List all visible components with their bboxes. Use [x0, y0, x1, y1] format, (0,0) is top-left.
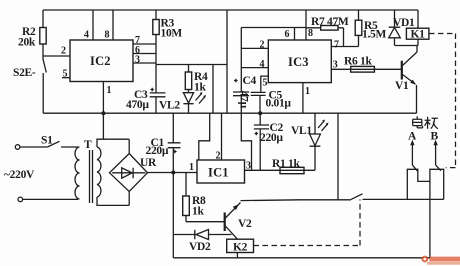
wire IC2 pin4: [92, 10, 94, 40]
wire vertical x227: [226, 10, 228, 113]
wire IC2 pin2: [43, 55, 70, 57]
wire C1 to bottom rail: [172, 173, 174, 258]
svg-text:S2E-: S2E-: [13, 67, 36, 79]
diode VD2: [173, 230, 231, 254]
relay coil K2: [227, 239, 254, 258]
terminal circle top: [15, 145, 20, 150]
LED VL2: [183, 92, 206, 113]
wire IC2 pin7: [133, 43, 156, 45]
svg-text:VL1: VL1: [291, 125, 312, 137]
wire IC3 pin7: [331, 46, 358, 48]
svg-text:220µ: 220µ: [146, 145, 169, 157]
svg-text:UR: UR: [140, 157, 157, 169]
svg-text:V1: V1: [395, 80, 409, 92]
svg-text:4: 4: [84, 30, 89, 41]
switch S1: [20, 135, 78, 148]
capacitor C3: [126, 88, 166, 113]
wire IC3 pin1: [302, 83, 304, 114]
wire bottom rail: [173, 257, 430, 259]
electrode arrow A: [411, 143, 413, 165]
connector sockets: [407, 169, 443, 199]
node junction mid rail: [258, 111, 262, 115]
label electrode: [413, 116, 438, 129]
svg-text:20k: 20k: [18, 37, 36, 49]
svg-text:VD2: VD2: [189, 241, 211, 253]
svg-text:B: B: [431, 131, 439, 143]
svg-text:2: 2: [260, 40, 265, 51]
diode VD1: [389, 10, 415, 46]
svg-text:R1 1k: R1 1k: [272, 158, 300, 170]
relay coil K1: [395, 10, 429, 46]
wire node to bridge: [102, 113, 104, 139]
capacitor C2: [254, 113, 284, 170]
LED VL1: [291, 113, 329, 170]
svg-text:VD1: VD1: [393, 17, 415, 29]
svg-text:IC1: IC1: [208, 166, 229, 180]
wire vertical x213: [212, 65, 214, 114]
timer IC1: [197, 160, 245, 183]
wire IC3 pin6: [294, 28, 296, 41]
bridge rectifier UR: [110, 139, 158, 191]
capacitor C5: [251, 90, 292, 114]
resistor R1: [272, 158, 304, 174]
electrode arrow B: [435, 143, 437, 165]
svg-text:IC3: IC3: [288, 55, 309, 69]
svg-text:2: 2: [61, 46, 66, 57]
wire x338 vertical: [337, 113, 339, 199]
svg-text:5: 5: [263, 78, 268, 89]
svg-text:10M: 10M: [161, 28, 183, 40]
svg-text:T: T: [84, 139, 92, 151]
svg-text:1k: 1k: [194, 82, 206, 94]
resistor R4: [185, 65, 208, 94]
wire IC3 pin2: [241, 47, 268, 49]
svg-text:4: 4: [260, 59, 265, 70]
resistor R2: [18, 10, 46, 56]
svg-text:1: 1: [107, 85, 112, 96]
transistor V2: [225, 203, 252, 240]
wire IC2 pin8: [112, 10, 114, 40]
svg-text:1: 1: [189, 162, 194, 173]
wire V2 base: [186, 221, 224, 223]
svg-text:V2: V2: [238, 218, 252, 230]
svg-text:7: 7: [334, 40, 339, 51]
wire IC1 pin3: [245, 169, 316, 171]
svg-text:S1: S1: [41, 135, 53, 147]
switch S2E: [13, 56, 46, 113]
wire IC1 pin2: [221, 113, 223, 160]
wire mid rail: [43, 112, 416, 114]
wire IC3 pin5: [261, 76, 269, 92]
svg-text:1.5M: 1.5M: [362, 29, 386, 41]
wire IC3 pin4: [241, 67, 268, 69]
wire top rail: [43, 9, 418, 11]
svg-text:IC2: IC2: [90, 54, 111, 68]
svg-text:3: 3: [246, 161, 251, 172]
resistor R7: [306, 16, 349, 47]
wire IC2 pin1: [102, 82, 104, 114]
svg-text:0.01µ: 0.01µ: [266, 98, 292, 110]
wire IC3 pin8: [305, 10, 307, 40]
svg-text:1k: 1k: [192, 206, 204, 218]
capacitor C1: [146, 113, 181, 172]
wire 220V bottom: [23, 198, 78, 200]
svg-text:470µ: 470µ: [126, 99, 149, 111]
svg-text:8: 8: [105, 30, 110, 41]
node junction C1: [171, 171, 175, 175]
svg-text:3: 3: [333, 60, 338, 71]
svg-text:47µ: 47µ: [238, 91, 250, 109]
wire electrode line: [241, 199, 352, 202]
resistor R3: [153, 10, 183, 93]
svg-text:C4: C4: [243, 75, 257, 87]
svg-text:R7 47M: R7 47M: [311, 16, 349, 28]
wire node A horizontal: [156, 64, 227, 66]
svg-text:R6 1k: R6 1k: [344, 56, 372, 68]
svg-text:220µ: 220µ: [260, 132, 283, 144]
op-amp IC3: [268, 40, 331, 83]
wire IC2 pin6: [133, 53, 156, 55]
resistor R6: [344, 56, 374, 73]
svg-text:3: 3: [135, 55, 140, 66]
svg-text:6: 6: [285, 29, 290, 40]
wire step left: [199, 113, 210, 160]
wire connector down: [429, 181, 431, 257]
svg-text:K1: K1: [411, 29, 426, 41]
dashed link K2: [254, 199, 361, 245]
svg-text:2: 2: [216, 151, 221, 162]
dashed link K1: [429, 34, 456, 168]
wire IC3 pin3: [331, 68, 401, 70]
transformer T: [75, 139, 129, 205]
svg-text:K2: K2: [233, 242, 248, 254]
transistor V1: [395, 46, 417, 114]
resistor R5: [355, 10, 386, 47]
wire IC3 left bus: [241, 28, 306, 93]
svg-text:8: 8: [308, 28, 313, 39]
wire IC2 pin3: [133, 62, 156, 64]
watermark logo: [421, 256, 460, 265]
wire IC2 pin5: [62, 77, 70, 79]
svg-text:~220V: ~220V: [4, 169, 35, 181]
capacitor C4: [233, 75, 257, 113]
svg-text:VL2: VL2: [159, 100, 180, 112]
svg-text:1: 1: [305, 86, 310, 97]
resistor R8: [183, 173, 206, 222]
terminal circle bottom: [18, 197, 23, 202]
relay contact K1: [351, 194, 444, 200]
wire bridge output: [147, 172, 197, 174]
svg-text:5: 5: [63, 69, 68, 80]
op-amp IC2: [70, 40, 133, 82]
node junction: [101, 111, 105, 115]
wire step right: [241, 113, 251, 170]
